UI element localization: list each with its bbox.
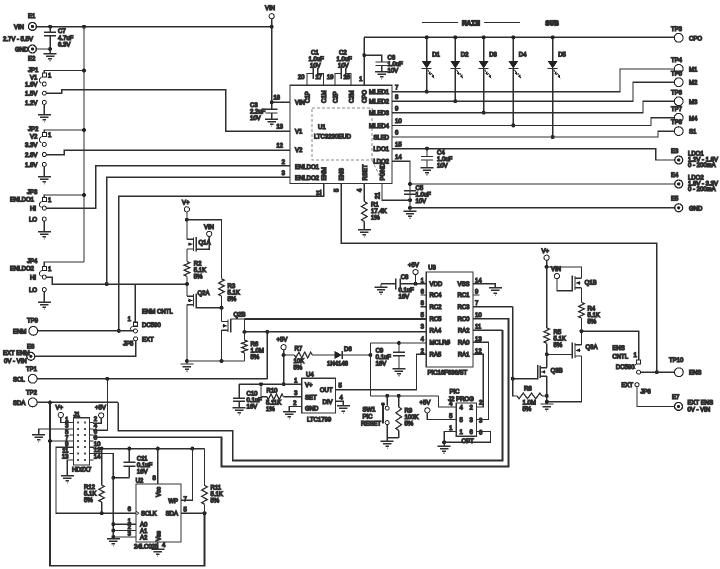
ground below JP4 bbox=[38, 302, 51, 309]
svg-text:LO: LO bbox=[29, 218, 37, 224]
wire RA0 to J2 pin 3 bbox=[473, 342, 489, 419]
wire MCLR net to U3 bbox=[370, 342, 426, 344]
LED D5 bbox=[552, 37, 554, 61]
svg-text:1.0uF: 1.0uF bbox=[437, 157, 453, 163]
svg-text:4: 4 bbox=[358, 188, 364, 192]
svg-text:1: 1 bbox=[359, 77, 363, 83]
svg-text:20: 20 bbox=[298, 75, 305, 81]
wire J2 pin1 pin6 OPT loop bbox=[444, 432, 490, 443]
svg-text:C8: C8 bbox=[401, 275, 409, 281]
transistor Q2B bbox=[222, 321, 229, 323]
wire ENLDO2 riser to U1 bbox=[107, 177, 290, 284]
svg-text:R12: R12 bbox=[84, 485, 96, 491]
svg-text:CPO: CPO bbox=[689, 36, 702, 42]
svg-text:14: 14 bbox=[395, 155, 402, 161]
svg-text:M3: M3 bbox=[689, 100, 698, 106]
svg-text:2: 2 bbox=[479, 401, 483, 407]
svg-text:VIN: VIN bbox=[204, 225, 214, 231]
svg-text:D1: D1 bbox=[432, 53, 440, 59]
resistor R6 1.0M bbox=[244, 332, 246, 340]
wire R5 to Q3B bbox=[546, 343, 548, 367]
wire JP6 center to TP10 bbox=[641, 371, 675, 373]
svg-text:C7: C7 bbox=[58, 29, 66, 35]
wire LDO1 to E3 bbox=[392, 149, 675, 160]
wire JP1 1.2V to ground bbox=[43, 104, 45, 114]
svg-text:E5: E5 bbox=[671, 197, 679, 203]
svg-text:9: 9 bbox=[395, 106, 399, 112]
svg-text:E4: E4 bbox=[671, 173, 679, 179]
terminal E1 VIN bbox=[28, 22, 36, 30]
ground below J2 pin1 bbox=[443, 442, 445, 446]
svg-text:0V - VIN: 0V - VIN bbox=[688, 408, 711, 414]
wire JP1 pin1 to bus bbox=[44, 71, 84, 74]
svg-text:EXT ENS: EXT ENS bbox=[688, 401, 714, 407]
svg-text:RA2: RA2 bbox=[458, 328, 470, 334]
svg-text:A0: A0 bbox=[140, 523, 148, 529]
svg-text:Q2A: Q2A bbox=[198, 291, 210, 297]
ground below C9 bbox=[398, 356, 400, 369]
wire E6 to JP5 EXT bbox=[35, 341, 136, 357]
wire RC5 net Q2B gate east bbox=[231, 319, 245, 332]
svg-text:+5V: +5V bbox=[95, 406, 106, 412]
node R4 Q3A junction bbox=[580, 329, 584, 333]
wire A1 to ground column bbox=[113, 530, 136, 532]
wire JP2 1.8V to ground bbox=[43, 166, 45, 176]
LED D4 bbox=[512, 37, 514, 61]
svg-text:V1: V1 bbox=[295, 129, 303, 135]
svg-text:5%: 5% bbox=[588, 320, 597, 326]
svg-text:RC5: RC5 bbox=[430, 317, 443, 323]
testpoint TP3 CPO bbox=[674, 33, 683, 42]
svg-text:ENS: ENS bbox=[340, 168, 346, 180]
LED D1 bbox=[426, 37, 428, 61]
wire J1 pin12 ground column bbox=[93, 454, 113, 539]
wire U2 SDA stub bbox=[181, 512, 205, 514]
op-amp U3 PIC16F636 body bbox=[426, 272, 473, 367]
svg-text:R11: R11 bbox=[211, 486, 222, 492]
node V+ left bbox=[184, 207, 189, 212]
svg-text:19: 19 bbox=[327, 75, 334, 81]
wire U4 DIV to ground bbox=[336, 401, 344, 406]
svg-text:LTC3230EUD: LTC3230EUD bbox=[314, 135, 352, 141]
svg-text:VDD: VDD bbox=[430, 282, 443, 288]
svg-text:2.8V: 2.8V bbox=[25, 153, 37, 159]
svg-text:JP5: JP5 bbox=[123, 342, 134, 348]
node +5V at J2 bbox=[425, 408, 430, 413]
svg-text:ENM: ENM bbox=[322, 167, 328, 180]
wire V+ jog to Q1B bbox=[547, 267, 582, 278]
svg-text:3: 3 bbox=[294, 391, 298, 397]
ground below R1 bbox=[358, 230, 371, 237]
svg-text:Q3B: Q3B bbox=[551, 368, 563, 374]
transistor Q2A bbox=[187, 295, 194, 297]
svg-text:5.1K: 5.1K bbox=[194, 268, 206, 274]
ground below C4 bbox=[426, 160, 428, 168]
svg-text:JP1: JP1 bbox=[28, 68, 39, 74]
connector J1 HD2X7 bbox=[74, 418, 90, 465]
svg-text:V+: V+ bbox=[542, 249, 550, 255]
svg-text:3: 3 bbox=[282, 171, 286, 177]
wire JP4 LO to ground bbox=[43, 292, 45, 302]
node R2 Q2A gate junction bbox=[186, 284, 188, 296]
wire SDA jog down east bbox=[118, 330, 502, 460]
wire Q2A source to ground bus bbox=[186, 305, 188, 361]
svg-text:PIC: PIC bbox=[363, 415, 374, 421]
svg-text:5%: 5% bbox=[294, 366, 303, 372]
wire Q1A gate to VIN bbox=[196, 237, 209, 252]
wire JP2 pin1 to bus bbox=[44, 130, 84, 133]
svg-text:5%: 5% bbox=[211, 499, 220, 505]
svg-text:RC3: RC3 bbox=[457, 305, 470, 311]
svg-text:5.1K: 5.1K bbox=[84, 492, 96, 498]
svg-text:5%: 5% bbox=[194, 275, 203, 281]
svg-text:RA1: RA1 bbox=[458, 353, 470, 359]
capacitor C5 bbox=[404, 190, 416, 192]
node +5V at U3 bbox=[413, 270, 418, 275]
svg-text:1%: 1% bbox=[371, 216, 380, 222]
wire MLED1 to M1 bbox=[392, 69, 674, 92]
resistor R10 5.11K bbox=[261, 384, 267, 396]
wire A0 to ground column bbox=[113, 523, 136, 525]
svg-text:15: 15 bbox=[395, 142, 402, 148]
wire D6 to MCLR riser bbox=[342, 354, 370, 356]
ground below C7 bbox=[49, 49, 51, 54]
node +5V at J1 bbox=[99, 413, 104, 418]
wire V+ line to U4 bbox=[239, 383, 302, 385]
svg-text:ENLDO1: ENLDO1 bbox=[295, 165, 320, 171]
svg-text:RC4: RC4 bbox=[430, 293, 443, 299]
svg-text:10V: 10V bbox=[388, 69, 399, 75]
svg-text:1N4148: 1N4148 bbox=[327, 362, 349, 368]
node V+ right bbox=[544, 255, 549, 260]
svg-text:U4: U4 bbox=[306, 373, 314, 379]
testpoint TP2 SDA bbox=[28, 398, 37, 407]
svg-text:VIN: VIN bbox=[295, 101, 305, 107]
svg-text:U1: U1 bbox=[318, 125, 326, 131]
svg-text:D6: D6 bbox=[344, 347, 352, 353]
ground below C6 bbox=[381, 66, 383, 72]
svg-text:C2M: C2M bbox=[350, 90, 356, 103]
wire J1 pin7 to SDA bbox=[50, 440, 70, 442]
svg-text:GND: GND bbox=[689, 206, 703, 212]
ground below JP1 bbox=[38, 115, 51, 122]
stub RC1 bbox=[473, 294, 480, 296]
wire Q3B gate west to RC3 bbox=[513, 378, 538, 380]
ground below C3 bbox=[271, 113, 273, 119]
svg-text:LTC1799: LTC1799 bbox=[307, 418, 332, 424]
svg-text:1%: 1% bbox=[266, 407, 275, 413]
svg-text:SDA: SDA bbox=[13, 401, 25, 407]
svg-text:1.2V: 1.2V bbox=[25, 101, 37, 107]
wire SCL branch to J1 pin 4 bbox=[93, 379, 108, 430]
wire LED anode bus bbox=[364, 36, 674, 38]
svg-text:LDO1: LDO1 bbox=[373, 147, 389, 153]
wire JP4 pin1 to bus bbox=[44, 262, 84, 267]
node V+ at J1 bbox=[58, 412, 63, 417]
svg-text:5.1K: 5.1K bbox=[588, 313, 600, 319]
svg-text:SDA: SDA bbox=[166, 512, 178, 518]
ground below SW1 bbox=[386, 438, 388, 441]
switch SW1 PIC RESET bbox=[386, 396, 388, 406]
svg-text:E3: E3 bbox=[671, 149, 679, 155]
svg-text:VIN: VIN bbox=[265, 6, 275, 12]
svg-text:17.4K: 17.4K bbox=[371, 209, 387, 215]
svg-text:RC0: RC0 bbox=[457, 317, 470, 323]
svg-text:M4: M4 bbox=[689, 116, 698, 122]
svg-text:E2: E2 bbox=[28, 57, 36, 63]
svg-text:GND: GND bbox=[305, 406, 319, 412]
resistor R7 10K bbox=[284, 354, 295, 356]
svg-text:5%: 5% bbox=[523, 407, 532, 413]
svg-text:10V: 10V bbox=[437, 164, 448, 170]
wire U4 GND pin to ground bbox=[289, 407, 302, 412]
svg-text:GND: GND bbox=[15, 48, 29, 54]
svg-text:S1: S1 bbox=[689, 130, 697, 136]
svg-text:ENS: ENS bbox=[689, 371, 701, 377]
svg-text:SW1: SW1 bbox=[363, 408, 377, 414]
svg-text:C1M: C1M bbox=[322, 90, 328, 103]
svg-text:PIC: PIC bbox=[449, 390, 460, 396]
wire +5V to J1 pin2 bbox=[93, 418, 101, 423]
svg-text:C11: C11 bbox=[137, 457, 148, 463]
svg-text:1.0uF: 1.0uF bbox=[309, 57, 325, 63]
svg-text:R2: R2 bbox=[194, 262, 202, 268]
resistor R11 5.1K bbox=[204, 449, 206, 486]
svg-text:10: 10 bbox=[94, 442, 101, 448]
wire V1 net JP1 to U1 bbox=[46, 90, 290, 131]
svg-text:TP9: TP9 bbox=[27, 319, 39, 325]
LED D2 bbox=[454, 37, 456, 61]
wire +5V down to V+ line bbox=[283, 350, 285, 384]
wire MLED2 to M2 bbox=[392, 82, 674, 101]
ground below JP2 bbox=[38, 177, 51, 184]
svg-text:1: 1 bbox=[48, 198, 52, 204]
svg-text:ENLDO1: ENLDO1 bbox=[10, 198, 35, 204]
capacitor C10 bbox=[238, 384, 240, 398]
wire Q2A gate to R3 node bbox=[196, 306, 221, 309]
ground below U2 bbox=[151, 549, 164, 556]
wire LDO2 to E4 bbox=[392, 161, 410, 211]
svg-text:2.7V - 5.5V: 2.7V - 5.5V bbox=[3, 37, 33, 43]
svg-text:+5V: +5V bbox=[277, 338, 288, 344]
svg-text:3.3V: 3.3V bbox=[25, 143, 37, 149]
svg-text:TP7: TP7 bbox=[671, 107, 683, 113]
svg-text:5: 5 bbox=[335, 188, 341, 192]
svg-text:M1: M1 bbox=[689, 67, 698, 73]
svg-text:D4: D4 bbox=[519, 53, 527, 59]
svg-text:R3: R3 bbox=[228, 284, 236, 290]
testpoint TP9 ENM bbox=[29, 327, 38, 336]
wire VIN bus vertical bbox=[83, 27, 85, 262]
wire U2 Vss to ground bbox=[157, 542, 159, 549]
node +5V at U4 bbox=[281, 345, 286, 350]
svg-text:C2: C2 bbox=[339, 51, 347, 57]
wire MCLR net to J2 pin 4 bbox=[438, 396, 456, 407]
svg-text:5%: 5% bbox=[554, 343, 563, 349]
capacitor C7 bbox=[49, 27, 51, 33]
resistor R1 17.4K bbox=[363, 184, 365, 202]
svg-text:100K: 100K bbox=[405, 415, 419, 421]
ground below J1 pin13 bbox=[61, 476, 74, 483]
wire Q3A source down to ground bus bbox=[547, 356, 582, 402]
resistor R4 5.1K bbox=[581, 288, 583, 303]
ground below VSS bbox=[489, 288, 502, 295]
wire JP3 pin1 to bus bbox=[44, 195, 84, 198]
capacitor C11 bbox=[128, 449, 130, 463]
svg-text:R6: R6 bbox=[251, 342, 259, 348]
svg-text:5%: 5% bbox=[251, 355, 260, 361]
svg-text:D3: D3 bbox=[489, 53, 497, 59]
svg-text:CNTL: CNTL bbox=[612, 355, 628, 361]
svg-text:10V: 10V bbox=[250, 116, 261, 122]
capacitor C1 bbox=[307, 73, 313, 85]
svg-text:6: 6 bbox=[395, 131, 399, 137]
wire C11 to ground column bbox=[113, 477, 129, 479]
wire RC3 to Q3B gate riser bbox=[473, 306, 513, 308]
ground below Q3B bbox=[540, 404, 553, 411]
wire SDA branch down to bottom loop bbox=[50, 402, 205, 565]
svg-text:MLED1: MLED1 bbox=[369, 90, 390, 96]
terminal E5 GND bbox=[675, 204, 683, 212]
svg-text:10V: 10V bbox=[310, 64, 321, 70]
svg-text:1.5V: 1.5V bbox=[25, 92, 37, 98]
svg-text:C1P: C1P bbox=[306, 91, 312, 103]
svg-text:RC2: RC2 bbox=[430, 305, 443, 311]
svg-text:MAIN: MAIN bbox=[462, 21, 480, 29]
svg-text:1.0uF: 1.0uF bbox=[388, 62, 404, 68]
svg-text:Q1B: Q1B bbox=[585, 280, 597, 286]
svg-text:5%: 5% bbox=[228, 297, 237, 303]
ground below Q2A bbox=[186, 361, 188, 364]
svg-text:EXT: EXT bbox=[621, 383, 633, 389]
testpoint TP4 M1 bbox=[674, 65, 683, 74]
svg-text:16V: 16V bbox=[247, 405, 258, 411]
svg-text:0.1uF: 0.1uF bbox=[137, 463, 153, 469]
svg-text:16V: 16V bbox=[137, 470, 148, 476]
svg-text:3: 3 bbox=[421, 325, 425, 331]
svg-text:5.11K: 5.11K bbox=[266, 401, 281, 407]
svg-text:11: 11 bbox=[62, 448, 69, 454]
svg-text:VSS: VSS bbox=[457, 282, 469, 288]
svg-text:12: 12 bbox=[276, 143, 283, 149]
svg-text:1.0M: 1.0M bbox=[523, 401, 536, 407]
wire V2 net JP2 to U1 bbox=[46, 150, 290, 155]
svg-text:16V: 16V bbox=[399, 295, 410, 301]
svg-text:4.7uF: 4.7uF bbox=[58, 36, 74, 42]
svg-text:TP8: TP8 bbox=[671, 120, 683, 126]
svg-text:V+: V+ bbox=[56, 406, 64, 412]
wire A2 to ground column bbox=[113, 536, 136, 538]
resistor R8 1.0M bbox=[513, 379, 517, 396]
wire TP9 to JP5 center bbox=[38, 330, 134, 332]
wire SW1 R9 ground bus bbox=[387, 437, 399, 439]
svg-text:18: 18 bbox=[273, 96, 280, 102]
svg-text:R1: R1 bbox=[371, 203, 379, 209]
terminal E2 GND bbox=[28, 45, 36, 53]
testpoint TP10 ENS bbox=[675, 368, 684, 377]
svg-text:HI: HI bbox=[30, 276, 36, 282]
svg-text:DC590: DC590 bbox=[142, 323, 161, 329]
svg-text:SCLK: SCLK bbox=[141, 512, 157, 518]
svg-text:ENM: ENM bbox=[13, 329, 26, 335]
diode D6 1N4148 bbox=[334, 351, 342, 359]
ground below U4 DIV bbox=[337, 406, 350, 413]
wire RA2 east route bbox=[473, 329, 503, 331]
wire JP3 LO to ground bbox=[43, 221, 45, 231]
svg-text:R8: R8 bbox=[524, 387, 532, 393]
svg-text:D2: D2 bbox=[461, 53, 469, 59]
terminal E3 LDO1 bbox=[675, 156, 683, 164]
stub RC2 bbox=[420, 306, 426, 308]
svg-text:ENLDO2: ENLDO2 bbox=[10, 267, 35, 273]
capacitor C4 bbox=[426, 149, 428, 157]
testpoint TP6 M3 bbox=[674, 97, 683, 106]
svg-text:Q2B: Q2B bbox=[234, 313, 246, 319]
svg-text:TP5: TP5 bbox=[671, 71, 683, 77]
wire VSS to ground bbox=[473, 284, 496, 288]
node VIN at Q1A bbox=[207, 231, 212, 236]
svg-text:C5: C5 bbox=[416, 186, 424, 192]
svg-text:C6: C6 bbox=[388, 56, 396, 62]
svg-text:VIN: VIN bbox=[14, 25, 24, 31]
svg-text:0.1uF: 0.1uF bbox=[376, 355, 392, 361]
svg-text:JP4: JP4 bbox=[27, 259, 38, 265]
wire +5V to J2 pin 5 bbox=[427, 413, 456, 420]
wire U2 WP to bus bbox=[181, 449, 192, 501]
wire MCLR SW1 R9 line bbox=[370, 395, 438, 397]
wire SLED to S1 bbox=[392, 131, 674, 137]
svg-text:TP1: TP1 bbox=[26, 367, 38, 373]
svg-text:5%: 5% bbox=[84, 498, 93, 504]
svg-text:RA0: RA0 bbox=[458, 341, 470, 347]
svg-text:5.1K: 5.1K bbox=[228, 291, 240, 297]
svg-text:ENM CNTL: ENM CNTL bbox=[142, 310, 173, 316]
wire R3 to Q2B bbox=[221, 296, 223, 322]
transistor Q1B bbox=[575, 277, 582, 279]
svg-text:C4: C4 bbox=[437, 151, 445, 157]
svg-text:V2: V2 bbox=[30, 135, 38, 141]
ground below U4 GND bbox=[283, 412, 296, 419]
svg-text:VIN: VIN bbox=[551, 267, 561, 273]
wire SCL riser to RA4 line bbox=[266, 332, 268, 379]
wire Q3B source to ground bbox=[546, 376, 548, 404]
svg-text:U3: U3 bbox=[428, 266, 436, 272]
wire ENS CNTL drive to JP6 pin1 bbox=[582, 331, 639, 360]
wire JP6 EXT to E7 bbox=[637, 387, 674, 407]
svg-text:HI: HI bbox=[30, 207, 36, 213]
svg-text:PGND: PGND bbox=[380, 162, 386, 180]
svg-text:TP10: TP10 bbox=[669, 358, 684, 364]
svg-text:4: 4 bbox=[421, 337, 425, 343]
svg-text:E1: E1 bbox=[28, 14, 36, 20]
resistor R12 5.1K bbox=[101, 449, 103, 485]
capacitor C8 bbox=[395, 278, 397, 289]
wire VDD net bbox=[408, 283, 426, 285]
svg-text:5.1K: 5.1K bbox=[211, 492, 223, 498]
svg-text:7: 7 bbox=[395, 85, 399, 91]
wire J1 pin9 SCLK route bbox=[56, 447, 136, 513]
capacitor C3 bbox=[271, 102, 273, 109]
wire GND to E5 bbox=[410, 207, 675, 209]
wire U4 OUT to RA5 bbox=[336, 354, 427, 390]
svg-text:C9: C9 bbox=[376, 349, 384, 355]
resistor R9 100K bbox=[398, 396, 400, 407]
svg-text:10V: 10V bbox=[416, 199, 427, 205]
wire ENLDO1 net JP3 to U1 bbox=[46, 166, 290, 208]
svg-text:1: 1 bbox=[48, 74, 52, 80]
svg-text:1: 1 bbox=[633, 353, 637, 359]
svg-text:LO: LO bbox=[29, 288, 37, 294]
